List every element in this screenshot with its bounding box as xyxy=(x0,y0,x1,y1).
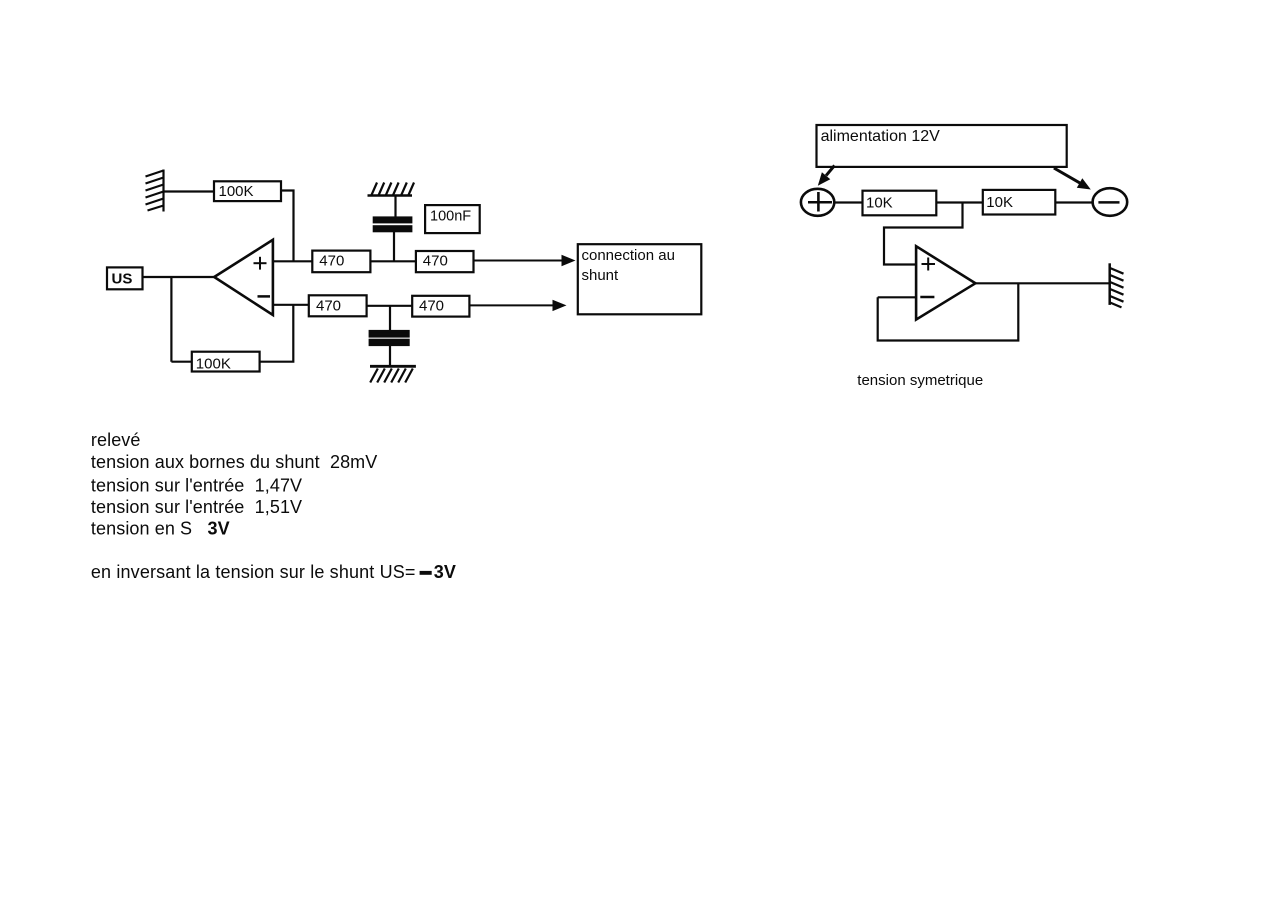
wire R7 to R8 xyxy=(936,201,983,203)
svg-text:US: US xyxy=(112,271,133,288)
resistor R8 10K xyxy=(983,190,1056,215)
svg-text:10K: 10K xyxy=(866,194,893,211)
plus sign U1 xyxy=(254,257,267,270)
svg-text:10K: 10K xyxy=(986,194,1013,211)
svg-text:470: 470 xyxy=(423,252,448,269)
svg-text:470: 470 xyxy=(319,252,344,269)
connection au shunt box xyxy=(578,244,702,314)
wire plus terminal to R7 xyxy=(834,201,862,203)
wire R8 to minus terminal xyxy=(1055,201,1093,203)
wire arrow row2 xyxy=(469,304,554,306)
alimentation 12V box xyxy=(817,125,1067,167)
svg-text:tension symetrique: tension symetrique xyxy=(857,372,983,389)
wire feedback U2 xyxy=(878,283,1019,340)
plus terminal circle xyxy=(801,189,834,216)
svg-text:tension sur l'entrée 1,47V: tension sur l'entrée 1,47V xyxy=(91,476,302,496)
arrowhead row2 xyxy=(553,300,567,311)
wire C1 to ground G2 xyxy=(394,196,396,218)
resistor R4 470 (row1 right) xyxy=(416,251,474,272)
svg-text:alimentation 12V: alimentation 12V xyxy=(821,128,941,145)
svg-text:relevé: relevé xyxy=(91,430,141,450)
minus sign U2 xyxy=(920,296,934,299)
wire row2 node to C2 xyxy=(389,306,391,331)
resistor R2 100K (bottom) xyxy=(192,352,260,373)
wire plus input xyxy=(273,260,312,262)
wire U2 output to ground xyxy=(975,282,1109,284)
resistor R6 470 (row2 right) xyxy=(412,296,469,317)
wire C2 to ground G3 xyxy=(389,345,391,366)
ground G1 (top left, vertical with hatches) xyxy=(146,170,164,212)
svg-text:tension en S 3V: tension en S 3V xyxy=(91,519,230,539)
svg-text:100K: 100K xyxy=(196,355,231,372)
wire R3 to R4 xyxy=(370,260,416,262)
wire arrow row1 to shunt box xyxy=(474,260,564,262)
svg-text:470: 470 xyxy=(419,298,444,315)
ground G4 (right, vertical with hatches right) xyxy=(1110,263,1124,307)
op-amp U2 xyxy=(916,246,975,319)
arrow alim to plus terminal xyxy=(818,166,835,186)
wire ground G1 to R1 xyxy=(164,190,215,192)
svg-text:en inversant la tension sur le: en inversant la tension sur le shunt US= xyxy=(91,562,416,582)
wire minus input xyxy=(273,304,309,306)
svg-text:shunt: shunt xyxy=(582,267,620,284)
svg-text:100K: 100K xyxy=(219,183,254,200)
arrowhead row1 xyxy=(562,255,576,266)
label C1 100nF box xyxy=(425,205,480,233)
wire C1 to row1 node xyxy=(393,231,395,261)
ground G3 (bottom middle, horizontal with hatches below) xyxy=(370,366,416,382)
op-amp U1 (apex left) xyxy=(214,240,273,315)
wire to R2 xyxy=(171,361,191,363)
resistor R3 470 (row1 left) xyxy=(312,251,370,273)
plus sign U2 xyxy=(922,258,936,271)
wire R1 to plus input node xyxy=(281,191,294,262)
svg-text:3V: 3V xyxy=(434,562,456,582)
wire R5 to R6 xyxy=(367,305,413,307)
capacitor C1 plate bottom xyxy=(374,226,412,231)
capacitor C2 plate top xyxy=(370,331,409,337)
node US box xyxy=(107,267,143,289)
notes text block xyxy=(91,430,456,582)
wire divider node to op-amp plus input xyxy=(884,203,963,265)
wire feedback left vertical xyxy=(170,277,172,362)
svg-text:tension aux bornes du shunt 2: tension aux bornes du shunt 28mV xyxy=(91,452,377,472)
svg-text:470: 470 xyxy=(316,298,341,315)
wire R2 to minus input node xyxy=(260,305,294,362)
ground G2 (top middle, horizontal with hatches above) xyxy=(368,183,415,196)
minus sign U1 xyxy=(258,295,271,298)
capacitor C2 plate bottom xyxy=(370,340,409,345)
wire minus input U2 xyxy=(878,296,916,298)
svg-text:tension sur l'entrée 1,51V: tension sur l'entrée 1,51V xyxy=(91,497,302,517)
minus terminal circle xyxy=(1093,188,1128,216)
capacitor C1 plate top xyxy=(374,218,412,223)
svg-text:connection au: connection au xyxy=(582,247,675,264)
svg-text:100nF: 100nF xyxy=(430,209,471,225)
wire US to op-amp apex xyxy=(143,276,215,278)
resistor R5 470 (row2 left) xyxy=(309,295,367,316)
arrow alim to minus terminal xyxy=(1054,168,1091,190)
resistor R7 10K xyxy=(863,191,937,216)
resistor R1 100K (top) xyxy=(214,181,281,201)
